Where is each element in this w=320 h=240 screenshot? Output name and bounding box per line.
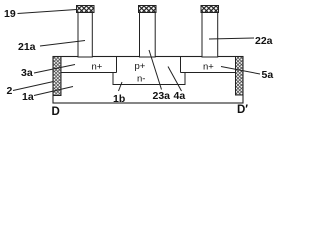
leader 19 — [18, 10, 77, 14]
svg-text:D: D — [52, 106, 60, 118]
svg-text:22a: 22a — [255, 35, 273, 47]
n+ / p+ boundary — [116, 57, 118, 73]
svg-text:1b: 1b — [113, 93, 125, 105]
svg-text:n-: n- — [137, 74, 145, 85]
leader 22a — [209, 38, 254, 39]
leader 5a — [221, 67, 260, 75]
right gate pillar 22a — [202, 13, 218, 58]
leader 23a — [149, 50, 162, 90]
svg-text:D′: D′ — [237, 104, 248, 116]
left contact strip 2 — [53, 57, 61, 96]
leader 2 — [13, 82, 54, 91]
leader 3a — [34, 65, 75, 74]
svg-text:19: 19 — [4, 8, 16, 20]
n+ region left (3a) bottom boundary — [61, 72, 117, 74]
n- well box 1b — [113, 73, 185, 85]
svg-text:3a: 3a — [21, 67, 33, 79]
left cap 19 — [77, 6, 95, 13]
middle cap — [139, 6, 157, 13]
leader 21a — [40, 41, 85, 47]
leader 1b — [119, 82, 123, 91]
svg-text:1a: 1a — [22, 91, 34, 103]
substrate body 1a — [53, 57, 243, 104]
svg-text:n+: n+ — [92, 62, 103, 73]
svg-text:23a: 23a — [153, 90, 171, 102]
svg-text:2: 2 — [7, 85, 13, 97]
svg-text:n+: n+ — [203, 62, 214, 73]
right cap — [201, 6, 219, 13]
middle gate pillar — [140, 13, 156, 58]
svg-text:5a: 5a — [262, 69, 274, 81]
svg-text:21a: 21a — [18, 41, 36, 53]
right contact strip — [236, 57, 244, 96]
leader 1a — [34, 87, 73, 96]
svg-text:4a: 4a — [174, 90, 186, 102]
p+ / n+ right boundary — [180, 57, 182, 73]
n+ region right (5a) bottom boundary — [181, 72, 236, 74]
leader 4a — [168, 67, 182, 92]
left gate pillar 21a — [78, 13, 92, 58]
svg-text:p+: p+ — [135, 61, 146, 72]
